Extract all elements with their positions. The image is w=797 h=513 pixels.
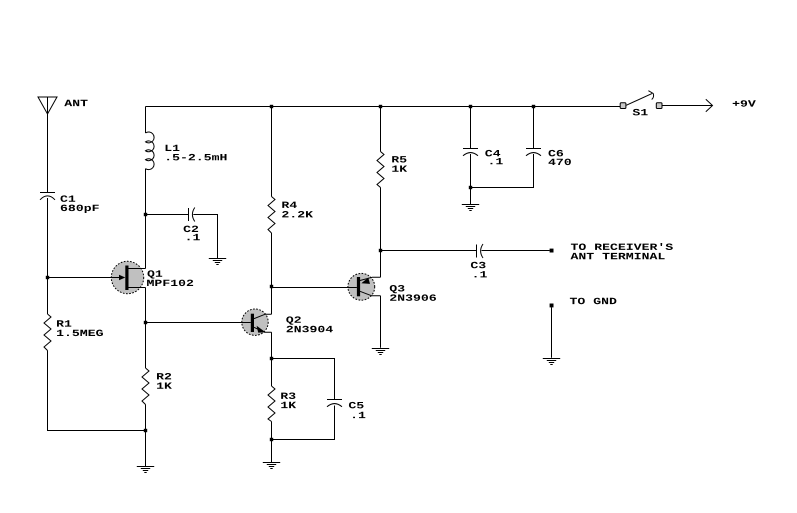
inductor L1 xyxy=(146,132,155,170)
label R4 value xyxy=(282,202,313,218)
wire Q1 source down xyxy=(145,288,147,369)
node rail/R4 junction xyxy=(270,105,273,108)
node rail/R5 junction xyxy=(379,105,382,108)
arrow +9V xyxy=(706,99,713,112)
label L1 value xyxy=(166,145,227,161)
label C3 value xyxy=(471,262,487,278)
node C4/C6 junction xyxy=(469,186,472,189)
transistor Q1 MPF102 xyxy=(110,261,146,293)
ground Q3 xyxy=(372,349,389,355)
wire C2 left xyxy=(146,214,189,216)
node Q2 base tap junction xyxy=(144,321,147,324)
wire C2 node to Q1 drain xyxy=(145,215,147,269)
wire C1 to R1 xyxy=(47,198,49,314)
wire C3 node to Q3 emitter xyxy=(380,251,382,278)
label C6 value xyxy=(549,150,571,165)
wire Q2 emitter down xyxy=(271,332,273,386)
node R1/R2 junction xyxy=(144,429,147,432)
label TO RECEIVER'S ANT TERMINAL xyxy=(571,243,673,259)
label C4 value xyxy=(485,150,502,164)
resistor R2 xyxy=(142,368,149,405)
wire R5 to C3 node xyxy=(380,188,382,251)
wire antenna to C1 xyxy=(47,114,49,193)
label S1 xyxy=(633,109,648,116)
label R2 value xyxy=(157,373,172,389)
capacitor C4 xyxy=(463,149,478,156)
wire gate to Q1 xyxy=(48,277,120,279)
switch S1 xyxy=(620,91,662,109)
label Q2 value xyxy=(286,316,333,332)
label R3 value xyxy=(281,393,296,409)
node R3/C5 top junction xyxy=(270,357,273,360)
wire S1 to +9V arrow xyxy=(662,105,712,107)
wire R1 bottom to ground rail xyxy=(48,351,146,431)
node C2 tap junction xyxy=(144,213,147,216)
resistor R3 xyxy=(268,386,275,422)
label Q3 value xyxy=(390,285,436,301)
wire ground terminal down xyxy=(551,307,553,357)
capacitor C1 xyxy=(40,193,55,200)
wire R2 to ground xyxy=(145,405,147,467)
wire C6 bottom to C4 node xyxy=(471,154,534,188)
wire C5 bottom xyxy=(272,406,335,440)
label C1 value xyxy=(61,195,99,213)
node rail/C6 junction xyxy=(532,105,535,108)
ground C4 xyxy=(462,205,479,211)
node ground terminal xyxy=(550,304,554,308)
wire Q3 base xyxy=(272,287,357,289)
ground R2 xyxy=(137,467,154,473)
label +9V xyxy=(733,100,756,107)
wire R3 to ground xyxy=(271,422,273,463)
wire rail to L1 xyxy=(145,107,147,134)
node Q3 base junction xyxy=(270,285,273,288)
wire rail to C4 xyxy=(470,107,472,149)
label C2 value xyxy=(184,226,200,241)
transistor Q2 2N3904 xyxy=(241,309,272,335)
node rail/C4 junction xyxy=(469,105,472,108)
wire C3 right to terminal xyxy=(482,250,550,252)
label C5 value xyxy=(349,402,365,418)
capacitor C3 xyxy=(477,244,484,258)
wire C5 top xyxy=(272,359,335,401)
wire rail to R5 xyxy=(380,107,382,152)
label ANT xyxy=(64,100,87,106)
capacitor C6 xyxy=(526,149,541,156)
wire C4 bottom xyxy=(470,154,472,204)
ground R3 xyxy=(263,463,280,469)
ground C2 xyxy=(209,259,226,265)
wire R4 to Q2 collector xyxy=(271,233,273,314)
wire top rail xyxy=(146,106,621,108)
wire Q3 collector to ground xyxy=(380,296,382,348)
label Q1 value xyxy=(147,270,193,286)
wire C3 left xyxy=(381,250,477,252)
wire C2 right to ground xyxy=(193,215,217,259)
resistor R4 xyxy=(268,197,275,234)
resistor R5 xyxy=(377,152,384,188)
node C3 tap junction xyxy=(379,249,382,252)
resistor R1 xyxy=(44,314,51,351)
node output terminal xyxy=(550,249,554,253)
transistor Q3 2N3906 xyxy=(347,273,381,300)
capacitor C5 xyxy=(327,400,342,407)
wire rail to C6 xyxy=(533,107,535,149)
ground TO GND xyxy=(543,359,560,365)
label R1 value xyxy=(57,320,103,336)
label R5 value xyxy=(392,156,407,172)
label TO GND xyxy=(570,298,617,305)
capacitor C2 xyxy=(189,208,195,222)
node gate junction xyxy=(46,276,49,279)
wire rail to R4 xyxy=(271,107,273,197)
antenna ANT xyxy=(38,97,57,114)
node R3/C5 bottom junction xyxy=(270,438,273,441)
wire L1 to C2 node xyxy=(145,169,147,215)
wire Q2 base xyxy=(146,322,252,324)
